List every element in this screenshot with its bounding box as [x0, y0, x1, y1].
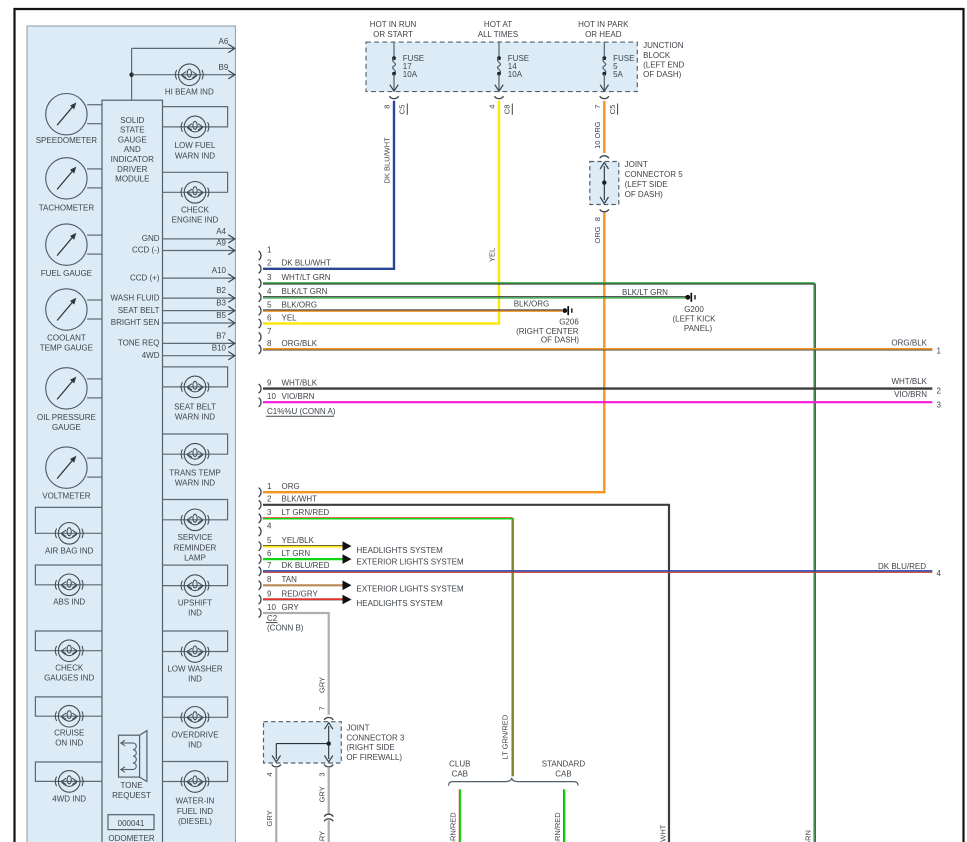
- wire: pin B9 through HI BEAM IND: [132, 74, 235, 76]
- svg-text:DK BLU/RED: DK BLU/RED: [878, 562, 926, 571]
- svg-text:B3: B3: [216, 299, 226, 308]
- svg-text:1: 1: [267, 245, 272, 254]
- svg-text:WHT/BLK: WHT/BLK: [891, 377, 927, 386]
- svg-text:LT GRN: LT GRN: [282, 549, 311, 558]
- svg-text:C2: C2: [267, 614, 278, 623]
- svg-text:YEL: YEL: [488, 248, 497, 262]
- svg-text:ORG/BLK: ORG/BLK: [891, 339, 927, 348]
- indicator lamp: CRUISE ON IND: [35, 697, 102, 716]
- svg-text:3: 3: [937, 400, 942, 409]
- svg-text:7: 7: [317, 706, 326, 710]
- indicator lamp: LOW FUEL WARN IND: [163, 107, 228, 127]
- svg-text:DK BLU/WHT: DK BLU/WHT: [383, 137, 392, 184]
- svg-text:IND: IND: [188, 675, 202, 684]
- svg-text:RED/GRY: RED/GRY: [282, 589, 319, 598]
- svg-text:OVERDRIVE: OVERDRIVE: [171, 731, 218, 740]
- svg-text:INDICATOR: INDICATOR: [111, 155, 154, 164]
- svg-text:TACHOMETER: TACHOMETER: [39, 203, 95, 212]
- svg-text:B5: B5: [216, 311, 226, 320]
- svg-text:SERVICE: SERVICE: [178, 533, 213, 542]
- svg-text:9: 9: [267, 589, 272, 598]
- gauge: TACHOMETER: [46, 158, 87, 199]
- svg-text:2: 2: [267, 495, 272, 504]
- wire RED/GRY C2 pin 9 to headlights system: [263, 598, 343, 600]
- svg-text:VOLTMETER: VOLTMETER: [42, 491, 91, 500]
- svg-text:4: 4: [267, 521, 272, 530]
- svg-text:B9: B9: [219, 63, 229, 72]
- wire LT GRN/RED C2 pin 3 down to cab split: [262, 518, 512, 776]
- svg-text:SOLID: SOLID: [120, 116, 144, 125]
- svg-text:IND: IND: [188, 609, 202, 618]
- svg-text:6: 6: [267, 549, 272, 558]
- cab split brace: [449, 778, 579, 786]
- svg-text:JUNCTION: JUNCTION: [643, 41, 684, 50]
- svg-text:CAB: CAB: [555, 769, 571, 778]
- arrow to EXTERIOR LIGHTS SYSTEM (row 8): [343, 581, 352, 591]
- connector cup above joint connector 5: [600, 156, 609, 158]
- svg-text:BLK/ORG: BLK/ORG: [282, 300, 318, 309]
- instrument cluster panel: [27, 26, 235, 842]
- module pin B7 (TONE REQ): [163, 342, 235, 344]
- svg-text:4: 4: [265, 772, 274, 776]
- svg-text:BLK/WHT: BLK/WHT: [658, 824, 667, 842]
- wire DK BLU/RED C2 pin 7 to right edge: [263, 570, 932, 572]
- svg-text:1: 1: [937, 347, 942, 356]
- svg-text:CLUB: CLUB: [449, 760, 470, 769]
- svg-text:4: 4: [488, 105, 497, 109]
- svg-text:TONE: TONE: [120, 781, 142, 790]
- svg-text:BRIGHT SEN: BRIGHT SEN: [111, 318, 160, 327]
- svg-text:(RIGHT SIDE: (RIGHT SIDE: [346, 743, 394, 752]
- svg-text:BLK/WHT: BLK/WHT: [282, 495, 318, 504]
- connector cup above joint connector 3: [324, 717, 333, 719]
- svg-text:C5: C5: [608, 105, 617, 115]
- svg-text:HOT AT: HOT AT: [484, 20, 512, 29]
- wire ORG/BLK C1 pin 8 to right edge: [263, 348, 932, 350]
- module pin A4 (GND): [163, 238, 235, 240]
- svg-text:WASH FLUID: WASH FLUID: [110, 293, 159, 302]
- svg-text:A4: A4: [216, 227, 226, 236]
- wire GRY right branch to inline connector: [328, 768, 330, 814]
- svg-text:(LEFT END: (LEFT END: [643, 61, 684, 70]
- indicator lamp: CHECK ENGINE IND: [163, 172, 228, 192]
- svg-text:ORG/BLK: ORG/BLK: [282, 339, 318, 348]
- connector cups below joint connector 3: [272, 765, 281, 767]
- svg-text:TRANS TEMP: TRANS TEMP: [169, 468, 220, 477]
- svg-text:BLOCK: BLOCK: [643, 51, 671, 60]
- svg-text:10A: 10A: [508, 70, 523, 79]
- wire VIO/BRN C1 pin 10 to right edge: [263, 401, 932, 403]
- arrow to EXTERIOR LIGHTS SYSTEM: [343, 554, 352, 564]
- wire LT GRN/RED club cab branch: [458, 789, 460, 842]
- indicator lamp: HI BEAM IND: [175, 64, 203, 86]
- svg-text:OF FIREWALL): OF FIREWALL): [346, 753, 402, 762]
- svg-text:OF DASH): OF DASH): [643, 70, 682, 79]
- svg-text:C1%%U (CONN A): C1%%U (CONN A): [267, 407, 336, 416]
- svg-text:3: 3: [317, 772, 326, 776]
- wire BLK/ORG C1 pin 5 to ground G206: [263, 309, 562, 311]
- svg-text:WARN IND: WARN IND: [175, 479, 215, 488]
- svg-text:(LEFT KICK: (LEFT KICK: [673, 315, 717, 324]
- svg-text:GRY: GRY: [282, 603, 300, 612]
- svg-text:ORG: ORG: [593, 226, 602, 243]
- svg-text:HOT IN RUN: HOT IN RUN: [370, 20, 417, 29]
- wire LT GRN C2 pin 6 to exterior lights system: [263, 558, 343, 560]
- module pin B2 (WASH FLUID): [163, 297, 235, 299]
- svg-text:JOINT: JOINT: [346, 723, 369, 732]
- wire BLK/WHT C2 pin 2 across and down: [263, 505, 669, 842]
- wire WHT/BLK C1 pin 9 to right edge: [263, 387, 932, 389]
- wire BLK/LT GRN C1 pin 4 to ground G200: [263, 296, 687, 298]
- svg-text:LAMP: LAMP: [184, 553, 206, 562]
- wire LT GRN/RED standard cab branch: [563, 789, 565, 842]
- svg-text:SEAT BELT: SEAT BELT: [118, 306, 160, 315]
- svg-text:B2: B2: [216, 286, 226, 295]
- svg-text:GRY: GRY: [317, 786, 326, 802]
- svg-text:LOW FUEL: LOW FUEL: [175, 141, 216, 150]
- svg-text:7: 7: [267, 327, 272, 336]
- svg-text:MODULE: MODULE: [115, 175, 149, 184]
- svg-text:10A: 10A: [403, 70, 418, 79]
- svg-text:LT GRN/RED: LT GRN/RED: [501, 714, 510, 759]
- svg-text:OR HEAD: OR HEAD: [585, 30, 622, 39]
- svg-text:ORG: ORG: [282, 482, 300, 491]
- wire YEL from fuse 14 to C1 pin 6: [263, 101, 499, 324]
- indicator lamp: ABS IND: [35, 565, 102, 585]
- svg-text:3: 3: [267, 508, 272, 517]
- svg-text:000041: 000041: [118, 819, 145, 828]
- svg-text:B10: B10: [212, 344, 227, 353]
- svg-text:(DIESEL): (DIESEL): [178, 817, 212, 826]
- svg-text:GAUGES IND: GAUGES IND: [44, 673, 94, 682]
- gauge: VOLTMETER: [46, 447, 87, 488]
- indicator lamp: UPSHIFT IND: [163, 565, 228, 586]
- svg-text:WATER-IN: WATER-IN: [176, 796, 215, 805]
- svg-text:4WD IND: 4WD IND: [52, 794, 86, 803]
- ground G206: [562, 308, 567, 313]
- svg-text:TONE REQ: TONE REQ: [118, 339, 160, 348]
- svg-text:BLK/LT GRN: BLK/LT GRN: [622, 288, 668, 297]
- svg-text:VIO/BRN: VIO/BRN: [282, 392, 315, 401]
- gauge: COOLANT TEMP GAUGE: [46, 289, 87, 330]
- svg-text:REQUEST: REQUEST: [112, 791, 151, 800]
- svg-text:ON IND: ON IND: [55, 739, 83, 748]
- svg-text:2: 2: [267, 259, 272, 268]
- svg-text:OF DASH): OF DASH): [541, 335, 580, 344]
- svg-text:(CONN B): (CONN B): [267, 624, 304, 633]
- svg-text:CHECK: CHECK: [55, 663, 84, 672]
- fuse 17 (10A): [393, 42, 395, 58]
- svg-text:4: 4: [937, 569, 942, 578]
- module pin B10 (4WD): [163, 355, 235, 357]
- svg-text:YEL/BLK: YEL/BLK: [282, 536, 315, 545]
- svg-text:HEADLIGHTS SYSTEM: HEADLIGHTS SYSTEM: [357, 599, 444, 608]
- svg-text:8: 8: [593, 217, 602, 221]
- inline connector on GRY wire: [324, 814, 333, 816]
- svg-text:STATE: STATE: [120, 126, 145, 135]
- svg-text:SPEEDOMETER: SPEEDOMETER: [36, 136, 98, 145]
- svg-text:GND: GND: [142, 234, 160, 243]
- svg-text:ENGINE IND: ENGINE IND: [172, 215, 219, 224]
- svg-text:WARN IND: WARN IND: [175, 151, 215, 160]
- svg-text:ALL TIMES: ALL TIMES: [478, 30, 518, 39]
- svg-text:LOW WASHER: LOW WASHER: [167, 665, 222, 674]
- svg-text:CAB: CAB: [452, 769, 468, 778]
- ground G200: [685, 295, 690, 300]
- fuse 5 (5A): [603, 42, 605, 58]
- svg-text:LT GRN/RED: LT GRN/RED: [449, 812, 458, 842]
- svg-text:C5: C5: [398, 105, 407, 115]
- connector C1 cups: [259, 251, 261, 260]
- svg-text:ABS IND: ABS IND: [53, 598, 85, 607]
- tone request transducer: [119, 735, 140, 777]
- svg-text:WHT/LT GRN: WHT/LT GRN: [803, 830, 812, 842]
- svg-text:DK BLU/RED: DK BLU/RED: [282, 561, 330, 570]
- svg-text:BLK/ORG: BLK/ORG: [514, 300, 550, 309]
- module pin B5 (BRIGHT SEN): [163, 322, 235, 324]
- svg-text:G200: G200: [684, 305, 704, 314]
- svg-text:CRUISE: CRUISE: [54, 728, 84, 737]
- connector cup below fuse 5: [600, 96, 609, 98]
- svg-text:10: 10: [267, 392, 276, 401]
- fuse 14 (10A): [498, 42, 500, 58]
- svg-text:WHT/LT GRN: WHT/LT GRN: [282, 273, 331, 282]
- gauge: SPEEDOMETER: [46, 94, 87, 135]
- wire GRY C2 pin 10 to joint connector 3: [263, 613, 329, 715]
- joint connector 5 (dashed): [590, 162, 619, 205]
- svg-text:YEL: YEL: [282, 313, 298, 322]
- svg-text:EXTERIOR LIGHTS SYSTEM: EXTERIOR LIGHTS SYSTEM: [357, 557, 464, 566]
- svg-text:SEAT BELT: SEAT BELT: [174, 402, 216, 411]
- svg-text:HI BEAM IND: HI BEAM IND: [165, 87, 214, 96]
- svg-text:A10: A10: [212, 266, 227, 275]
- connector C2 cups: [259, 488, 261, 497]
- arrow to HEADLIGHTS SYSTEM (row 9): [343, 595, 352, 605]
- joint connector 3 (dashed): [264, 722, 342, 763]
- indicator lamp: OVERDRIVE IND: [163, 697, 228, 717]
- wire ORG joint connector 5 down to C2 pin 1: [263, 213, 604, 493]
- svg-text:5: 5: [267, 536, 272, 545]
- connector cup below joint connector 5: [600, 209, 609, 211]
- svg-text:GRY: GRY: [317, 831, 326, 842]
- indicator lamp: CHECK GAUGES IND: [35, 631, 102, 651]
- svg-text:7: 7: [267, 561, 272, 570]
- module pin A10 (CCD (+)): [163, 277, 235, 279]
- junction node on A6/B9 feed: [129, 73, 133, 77]
- svg-text:LT GRN/RED: LT GRN/RED: [282, 508, 330, 517]
- wire DK BLU/WHT from fuse 17 to C1 pin 2: [263, 101, 394, 268]
- svg-text:CHECK: CHECK: [181, 205, 210, 214]
- svg-text:OIL PRESSURE: OIL PRESSURE: [37, 413, 96, 422]
- wire TAN C2 pin 8 to exterior lights system: [263, 584, 343, 586]
- solid state gauge and indicator driver module U1: [102, 100, 163, 842]
- module pin A9 (CCD (-)): [163, 250, 235, 252]
- svg-text:WARN IND: WARN IND: [175, 413, 215, 422]
- svg-text:COOLANT: COOLANT: [47, 334, 86, 343]
- svg-text:JOINT: JOINT: [625, 160, 648, 169]
- gauge: OIL PRESSURE GAUGE: [46, 368, 87, 409]
- svg-text:FUEL IND: FUEL IND: [177, 807, 213, 816]
- svg-text:EXTERIOR LIGHTS SYSTEM: EXTERIOR LIGHTS SYSTEM: [357, 585, 464, 594]
- wire GRY below inline connector: [328, 820, 330, 842]
- wire ORG fuse 5 to joint connector 5: [603, 101, 605, 153]
- svg-text:GRY: GRY: [317, 677, 326, 693]
- svg-text:10: 10: [267, 603, 276, 612]
- wire GRY left branch to bottom: [275, 768, 277, 842]
- svg-text:GAUGE: GAUGE: [52, 423, 81, 432]
- svg-text:5A: 5A: [613, 70, 623, 79]
- svg-text:A9: A9: [216, 239, 226, 248]
- svg-text:CONNECTOR 3: CONNECTOR 3: [346, 733, 405, 742]
- junction block (dashed): [366, 42, 637, 92]
- svg-text:10 ORG: 10 ORG: [593, 121, 602, 149]
- svg-text:6: 6: [267, 313, 272, 322]
- svg-text:FUEL GAUGE: FUEL GAUGE: [41, 269, 92, 278]
- svg-text:8: 8: [383, 105, 392, 109]
- svg-text:DRIVER: DRIVER: [117, 165, 147, 174]
- svg-text:LT GRN/RED: LT GRN/RED: [553, 812, 562, 842]
- arrow to HEADLIGHTS SYSTEM: [343, 541, 352, 551]
- svg-text:3: 3: [267, 273, 272, 282]
- svg-text:GRY: GRY: [265, 810, 274, 826]
- indicator lamp: LOW WASHER IND: [163, 631, 228, 652]
- svg-text:4WD: 4WD: [142, 351, 160, 360]
- svg-text:TEMP GAUGE: TEMP GAUGE: [40, 343, 93, 352]
- connector cup below fuse 14: [494, 96, 503, 98]
- svg-text:IND: IND: [188, 741, 202, 750]
- svg-text:C8: C8: [503, 105, 512, 115]
- svg-text:7: 7: [593, 105, 602, 109]
- gauge: FUEL GAUGE: [46, 224, 87, 265]
- svg-text:WHT/BLK: WHT/BLK: [282, 378, 318, 387]
- indicator lamp: SEAT BELT WARN IND: [163, 367, 228, 387]
- svg-text:STANDARD: STANDARD: [542, 760, 586, 769]
- svg-text:2: 2: [937, 387, 942, 396]
- indicator lamp: AIR BAG IND: [35, 507, 102, 533]
- svg-text:8: 8: [267, 339, 272, 348]
- svg-text:REMINDER: REMINDER: [174, 543, 217, 552]
- svg-text:8: 8: [267, 575, 272, 584]
- svg-text:1: 1: [267, 482, 272, 491]
- svg-text:OR START: OR START: [373, 30, 413, 39]
- svg-text:PANEL): PANEL): [684, 324, 713, 333]
- svg-text:DK BLU/WHT: DK BLU/WHT: [282, 259, 331, 268]
- wire YEL/BLK C2 pin 5 to headlights system: [263, 545, 343, 547]
- indicator lamp: WATER-IN FUEL IND (DIESEL): [163, 762, 228, 782]
- indicator lamp: SERVICE REMINDER LAMP: [163, 500, 228, 520]
- svg-text:AND: AND: [124, 145, 141, 154]
- connector cup below fuse 17: [389, 96, 398, 98]
- svg-text:9: 9: [267, 378, 272, 387]
- svg-text:5: 5: [267, 300, 272, 309]
- svg-text:HEADLIGHTS SYSTEM: HEADLIGHTS SYSTEM: [357, 546, 444, 555]
- svg-text:(LEFT SIDE: (LEFT SIDE: [625, 180, 668, 189]
- svg-text:TAN: TAN: [282, 575, 298, 584]
- svg-text:AIR BAG IND: AIR BAG IND: [45, 547, 94, 556]
- svg-text:A6: A6: [219, 37, 229, 46]
- svg-text:OF DASH): OF DASH): [625, 190, 664, 199]
- svg-text:CCD (+): CCD (+): [130, 273, 160, 282]
- svg-text:BLK/LT GRN: BLK/LT GRN: [282, 287, 328, 296]
- svg-text:CONNECTOR 5: CONNECTOR 5: [625, 170, 684, 179]
- wire: module pin A6 feed: [131, 48, 133, 100]
- svg-text:CCD (-): CCD (-): [132, 246, 160, 255]
- indicator lamp: TRANS TEMP WARN IND: [163, 434, 228, 454]
- svg-text:VIO/BRN: VIO/BRN: [894, 390, 927, 399]
- odometer display: [108, 815, 154, 830]
- module pin B3 (SEAT BELT): [163, 310, 235, 312]
- svg-text:ODOMETER: ODOMETER: [108, 834, 154, 842]
- svg-text:B7: B7: [216, 331, 226, 340]
- svg-text:HOT IN PARK: HOT IN PARK: [578, 20, 629, 29]
- wire WHT/LT GRN C1 pin 3 across and down: [263, 283, 814, 842]
- svg-text:4: 4: [267, 287, 272, 296]
- svg-text:G206: G206: [559, 318, 579, 327]
- svg-text:GAUGE: GAUGE: [118, 135, 147, 144]
- indicator lamp: 4WD IND: [35, 762, 102, 781]
- svg-text:UPSHIFT: UPSHIFT: [178, 599, 212, 608]
